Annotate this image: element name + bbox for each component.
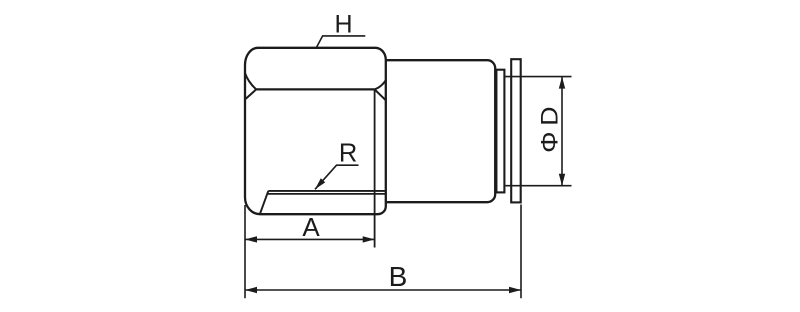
thread line lower <box>268 193 386 195</box>
extension line phiD bottom <box>505 185 571 187</box>
hex chamfer line right <box>375 89 386 100</box>
dimension line B <box>245 289 521 291</box>
arrowhead A left <box>245 236 257 242</box>
svg-text:ΦD: ΦD <box>537 101 563 153</box>
svg-text:H: H <box>334 11 352 39</box>
release collar <box>511 59 521 202</box>
svg-text:A: A <box>302 212 320 242</box>
arrowhead B right <box>509 287 521 293</box>
dimension line phiD <box>561 77 563 186</box>
arrowhead B left <box>245 287 257 293</box>
hex flat corner arc top-left <box>245 73 256 89</box>
extension line B right <box>520 205 522 299</box>
svg-text:R: R <box>339 140 357 168</box>
arrowhead phiD down <box>559 174 565 186</box>
hex inner vertical edge / A extension line <box>374 89 376 247</box>
hex top flat bottom edge <box>256 88 374 90</box>
extension line phiD top <box>505 76 571 78</box>
hex chamfer arc left <box>245 89 256 99</box>
extension line left A/B <box>244 205 246 298</box>
arrowhead phiD up <box>559 77 565 89</box>
leader line H <box>316 36 365 48</box>
cylinder body behind hex <box>386 60 495 202</box>
hex flat corner arc top-right <box>375 80 386 89</box>
thread chamfer diagonal <box>260 191 268 214</box>
dimension line A <box>245 238 375 240</box>
hex body outline <box>245 48 386 214</box>
thread line upper <box>268 190 386 192</box>
svg-text:B: B <box>389 261 408 292</box>
arrowhead A right <box>363 236 375 242</box>
washer ring <box>496 70 504 193</box>
leader line R <box>315 165 359 189</box>
leader arrowhead R <box>315 178 325 189</box>
